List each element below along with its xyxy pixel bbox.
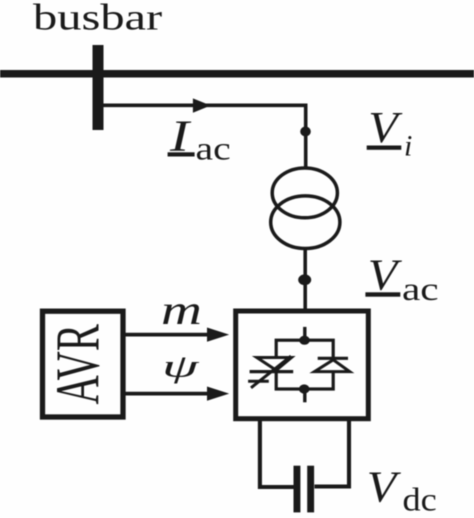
stub: AC input to valve bridge bbox=[303, 327, 306, 341]
svg-text:dc: dc bbox=[403, 481, 437, 518]
wire: DC left leg to capacitor bbox=[260, 419, 294, 487]
capacitor C left plate bbox=[294, 466, 301, 513]
capacitor C right plate bbox=[307, 466, 314, 513]
svg-text:ψ: ψ bbox=[162, 349, 199, 384]
thyristor V1 triangle (left, pointing down) bbox=[257, 358, 292, 371]
node: bridge top junction bbox=[299, 336, 310, 345]
control signal arrow psi bbox=[125, 387, 229, 401]
thyristor V1 control tick bbox=[248, 380, 269, 383]
transformer T1 secondary winding bbox=[271, 196, 340, 249]
busbar bbox=[0, 70, 474, 78]
svg-text:ac: ac bbox=[196, 131, 231, 167]
svg-text:ac: ac bbox=[402, 272, 439, 308]
thyristor V2 triangle (right, pointing up) bbox=[315, 360, 350, 372]
transformer T1 primary winding bbox=[272, 168, 337, 218]
control signal arrow m bbox=[125, 328, 229, 342]
svg-text:busbar: busbar bbox=[33, 0, 162, 38]
converter box U1 bbox=[236, 311, 369, 419]
thyristor V2 cathode bar (right) bbox=[318, 357, 348, 360]
wire: busbar tick to corner above transformer bbox=[103, 105, 306, 131]
thyristor V1 control diagonal bbox=[251, 356, 291, 388]
node: Vac measurement point bbox=[298, 274, 311, 285]
valve bridge loop bbox=[276, 340, 333, 389]
node: bridge bottom junction bbox=[299, 384, 310, 393]
label Iac bbox=[168, 113, 231, 167]
svg-text:V: V bbox=[367, 463, 402, 512]
arrowhead on Iac wire bbox=[193, 98, 211, 112]
wire: transformer to converter box bbox=[303, 248, 307, 311]
wire: node to transformer bbox=[304, 131, 308, 168]
label Vdc bbox=[367, 463, 437, 517]
AVR box bbox=[43, 311, 124, 417]
label Vac bbox=[365, 252, 438, 308]
wire: DC right leg to capacitor bbox=[315, 419, 350, 487]
label Vi bbox=[367, 104, 413, 163]
svg-text:AVR: AVR bbox=[44, 324, 113, 404]
busbar connection tick bbox=[93, 45, 104, 130]
stub: bridge bottom to DC side bbox=[303, 389, 306, 403]
thyristor V1 cathode bar bbox=[250, 370, 294, 373]
svg-text:i: i bbox=[404, 130, 412, 163]
node: Vi measurement point bbox=[300, 127, 311, 137]
svg-text:m: m bbox=[161, 287, 202, 333]
svg-text:V: V bbox=[368, 104, 403, 153]
